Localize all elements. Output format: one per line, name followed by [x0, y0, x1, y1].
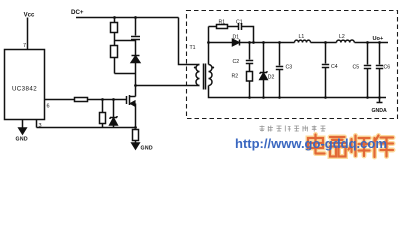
wire: snubber mid junction	[115, 40, 136, 42]
node: rail / snubber C	[134, 16, 137, 19]
node: gate wire junction (R branch)	[101, 98, 104, 101]
node: bottom rail C3	[278, 96, 281, 99]
node: bottom rail C6	[378, 96, 381, 99]
snubber branch wire (R1 C1 series)	[209, 27, 254, 43]
node: bottom rail C2R2	[248, 96, 251, 99]
zener diode D2	[260, 43, 267, 98]
node: bottom rail D2	[262, 96, 265, 99]
DC+ top rail wire	[76, 17, 179, 19]
inductor L1	[295, 40, 311, 42]
svg-text:GND: GND	[141, 146, 153, 152]
capacitor C5	[364, 43, 371, 98]
capacitor C4	[322, 43, 329, 98]
snubber diode	[131, 41, 140, 74]
svg-text:D2: D2	[268, 75, 275, 81]
snubber capacitor	[131, 18, 140, 41]
watermark url	[235, 136, 387, 151]
node: zener branch top	[262, 41, 265, 44]
capacitor C3	[276, 43, 283, 98]
svg-text:R2: R2	[232, 74, 239, 80]
wire: drain node to transformer primary bottom	[136, 85, 200, 87]
svg-text:C2: C2	[233, 59, 240, 65]
current sense resistor	[133, 130, 139, 144]
svg-text:7: 7	[23, 43, 26, 49]
svg-text:UC3842: UC3842	[12, 86, 37, 93]
svg-text:6: 6	[47, 104, 50, 110]
svg-text:C6: C6	[384, 65, 391, 71]
svg-text:L2: L2	[339, 34, 345, 40]
node: C4 branch top	[324, 41, 327, 44]
svg-text:GND: GND	[16, 137, 28, 143]
zener diode (gate-source)	[110, 100, 118, 128]
node: bottom rail C4	[324, 96, 327, 99]
svg-text:L1: L1	[299, 34, 305, 40]
svg-text:Uo+: Uo+	[373, 36, 384, 42]
caption: output rectifier filter circuit (simulated CJK text)	[260, 126, 326, 132]
node: bottom rail C5	[366, 96, 369, 99]
wire: snubber to drain node	[135, 74, 137, 86]
damping branch resistor R2	[247, 72, 253, 98]
transformer core	[204, 64, 206, 90]
output top rail wire	[240, 42, 389, 44]
svg-text:C5: C5	[353, 65, 360, 71]
svg-text:D1: D1	[233, 35, 240, 41]
MOSFET source wire	[135, 104, 137, 128]
diode D1	[233, 39, 240, 45]
node: gate wire junction (zener branch)	[112, 98, 115, 101]
IC ground stub	[22, 120, 24, 129]
snubber resistor upper	[111, 18, 118, 41]
gate resistor	[75, 98, 88, 102]
wire: secondary top lead up	[208, 27, 210, 65]
capacitor C1	[239, 23, 242, 30]
node: secondary / D1 line	[207, 41, 210, 44]
node: source sense junction	[134, 126, 137, 129]
svg-text:R1: R1	[219, 20, 226, 26]
node: C5 branch top	[366, 41, 369, 44]
transformer T1 primary winding	[196, 65, 199, 86]
wire pin3 to source sense node	[37, 127, 136, 129]
damping branch capacitor C2	[246, 43, 253, 72]
ground arrow (IC)	[19, 128, 26, 134]
dashed enclosure box (output rectifier/filter)	[187, 11, 398, 119]
svg-text:T1: T1	[190, 45, 196, 51]
svg-text:DC+: DC+	[71, 9, 84, 16]
wire: secondary bottom lead to output ground rail	[209, 86, 387, 98]
svg-text:C1: C1	[236, 20, 243, 26]
IC U1 UC3842 box	[5, 50, 45, 120]
MOSFET drain wire	[135, 86, 137, 97]
node: D1 cathode / RC top	[252, 41, 255, 44]
MOSFET Q1	[127, 95, 136, 106]
resistor (gate-source)	[100, 100, 106, 128]
svg-text:Vcc: Vcc	[24, 13, 35, 19]
wire: rail to primary top	[179, 18, 200, 65]
pin 7 stub wire	[27, 18, 29, 50]
transformer T1 secondary winding	[209, 65, 213, 86]
secondary phase dot	[212, 67, 214, 69]
svg-text:GNDA: GNDA	[372, 108, 388, 114]
capacitor C6	[376, 43, 383, 98]
svg-text:C4: C4	[331, 64, 338, 70]
wire: D1 anode line	[209, 42, 233, 44]
node: rail / snubber R	[113, 16, 116, 19]
watermark stamp (simulated orange CJK characters)	[308, 135, 393, 158]
primary phase dot	[194, 67, 196, 69]
GNDA terminal stub	[377, 98, 383, 103]
wire: snubber bottom junction	[115, 73, 136, 75]
node: C2R2 branch top	[248, 41, 251, 44]
pin 3 stub	[36, 120, 38, 128]
svg-text:C3: C3	[286, 65, 293, 71]
wire gate resistor to MOSFET gate	[88, 99, 127, 101]
snubber resistor lower	[111, 41, 118, 74]
resistor R1	[217, 25, 228, 29]
inductor L2	[337, 40, 355, 43]
node: drain junction	[134, 84, 137, 87]
node: C6 / output branch top	[378, 41, 381, 44]
wire pin6 to gate resistor	[45, 99, 75, 101]
ground arrow (source)	[132, 143, 139, 149]
node: C3 branch top	[278, 41, 281, 44]
